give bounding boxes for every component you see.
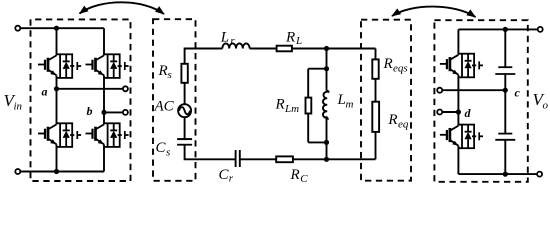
node d junction bbox=[456, 109, 461, 114]
wire Lr to RL bbox=[250, 48, 277, 50]
svg-text:C: C bbox=[300, 173, 308, 185]
wire AC to Cs bbox=[184, 117, 186, 139]
svg-text:s: s bbox=[166, 147, 170, 159]
wire top stub magnetizing bbox=[326, 49, 328, 69]
wire bottom stub magnetizing bbox=[326, 142, 328, 159]
wire output top rail bbox=[458, 28, 538, 30]
wire Vin- bottom rail bbox=[20, 171, 104, 173]
svg-text:b: b bbox=[87, 104, 93, 118]
wire node c bbox=[442, 89, 505, 91]
dashed box rectifier bbox=[434, 20, 527, 182]
terminal d bbox=[437, 110, 442, 115]
capacitor C2 bbox=[498, 133, 512, 135]
wire left leg middle bbox=[56, 75, 58, 124]
source AC bbox=[178, 104, 191, 117]
wire Lm upper lead bbox=[326, 69, 328, 91]
wire Cr to RC bbox=[240, 158, 276, 160]
node bottom bar bbox=[324, 140, 329, 145]
wire rectifier leg lower bbox=[457, 146, 459, 174]
transistor S5 bbox=[440, 54, 483, 78]
wire rectifier leg upper bbox=[457, 29, 459, 54]
svg-text:AC: AC bbox=[154, 99, 175, 115]
svg-text:R: R bbox=[158, 63, 168, 79]
resistor RL bbox=[277, 46, 292, 52]
svg-text:R: R bbox=[275, 97, 285, 113]
wire cap leg lower bbox=[504, 140, 506, 174]
node top rail cap leg bbox=[503, 27, 508, 32]
dashed box equivalent load bbox=[361, 20, 411, 181]
svg-text:d: d bbox=[465, 106, 472, 120]
wire Req branch bottom bbox=[375, 132, 377, 159]
wire top bar bbox=[308, 68, 326, 70]
node top bar bbox=[324, 66, 329, 71]
svg-text:in: in bbox=[14, 101, 23, 113]
wire Vin+ top rail bbox=[20, 27, 104, 29]
node bottom rail cap leg bbox=[503, 172, 508, 177]
dashed box source model bbox=[153, 19, 196, 181]
wire left leg upper bbox=[56, 28, 58, 55]
transistor S4 bbox=[86, 123, 129, 147]
svg-text:R: R bbox=[383, 56, 393, 72]
svg-text:eq: eq bbox=[398, 119, 409, 131]
node junction top rail bbox=[54, 26, 59, 31]
svg-text:a: a bbox=[42, 85, 48, 99]
node top magnetizing bbox=[324, 46, 329, 51]
resistor Reqs bbox=[372, 59, 378, 78]
wire RLm upper lead bbox=[307, 69, 309, 98]
capacitor Cs bbox=[177, 138, 192, 140]
node c junction bbox=[503, 88, 508, 93]
wire rectifier leg middle bbox=[457, 75, 459, 126]
svg-text:R: R bbox=[285, 30, 295, 46]
node junction bottom rail bbox=[54, 169, 59, 174]
wire source branch top bbox=[185, 49, 223, 64]
terminal Vo- bbox=[537, 172, 542, 177]
wire Cs to bottom bbox=[185, 145, 236, 160]
wire node a to terminal bbox=[57, 88, 124, 90]
wire cap leg upper bbox=[504, 29, 506, 67]
svg-text:R: R bbox=[290, 167, 300, 183]
resistor RLm bbox=[306, 98, 312, 114]
resistor RC bbox=[276, 156, 293, 162]
terminal c bbox=[437, 88, 442, 93]
wire RC to corner bbox=[293, 158, 376, 160]
terminal b bbox=[123, 110, 128, 115]
wire Reqs to Req bbox=[375, 79, 377, 102]
arrow right (double-headed arc) bbox=[392, 7, 476, 17]
svg-text:Lm: Lm bbox=[284, 103, 299, 115]
transistor S2 bbox=[86, 54, 129, 78]
node b bbox=[101, 110, 106, 115]
inductor Lm bbox=[323, 91, 329, 119]
svg-text:L: L bbox=[295, 35, 302, 47]
svg-text:m: m bbox=[346, 99, 354, 111]
svg-text:L: L bbox=[220, 30, 229, 46]
wire output bottom rail bbox=[458, 173, 537, 175]
svg-text:R: R bbox=[387, 112, 397, 128]
transistor S6 bbox=[440, 125, 483, 149]
dashed box inverter bbox=[31, 19, 131, 181]
terminal Vin+ bbox=[15, 26, 20, 31]
wire RL to node bbox=[292, 48, 376, 50]
node a bbox=[54, 86, 59, 91]
wire right leg middle bbox=[103, 75, 105, 124]
svg-text:r: r bbox=[229, 173, 234, 185]
wire Lm lower lead bbox=[326, 116, 328, 142]
wire right leg lower bbox=[103, 144, 105, 171]
terminal a bbox=[123, 86, 128, 91]
wire Reqs branch top bbox=[375, 49, 377, 60]
arrow left (double-headed arc) bbox=[80, 2, 165, 14]
svg-text:L: L bbox=[337, 92, 346, 108]
svg-text:s: s bbox=[168, 69, 172, 81]
resistor Req bbox=[372, 102, 379, 132]
svg-text:eqs: eqs bbox=[393, 63, 408, 75]
transistor S1 bbox=[38, 54, 81, 78]
wire cap leg mid bbox=[504, 74, 506, 134]
inductor Lr bbox=[222, 43, 249, 48]
svg-text:c: c bbox=[515, 86, 521, 100]
svg-text:o: o bbox=[543, 100, 549, 112]
node bottom magnetizing bbox=[324, 157, 329, 162]
wire RLm lower lead bbox=[307, 114, 309, 143]
wire node b to terminal bbox=[104, 111, 123, 113]
svg-text:r: r bbox=[230, 35, 235, 47]
wire bottom bar bbox=[308, 141, 326, 143]
capacitor C1 bbox=[498, 66, 512, 68]
wire node d bbox=[442, 111, 458, 113]
terminal Vin- bbox=[15, 169, 20, 174]
resistor Rs bbox=[181, 64, 187, 83]
transistor S3 bbox=[38, 123, 81, 147]
capacitor Cr bbox=[235, 150, 237, 167]
wire right leg upper bbox=[103, 28, 105, 55]
svg-text:C: C bbox=[156, 140, 167, 156]
wire Rs to AC bbox=[184, 83, 186, 104]
wire left leg lower bbox=[56, 144, 58, 171]
terminal Vo+ bbox=[538, 27, 543, 32]
